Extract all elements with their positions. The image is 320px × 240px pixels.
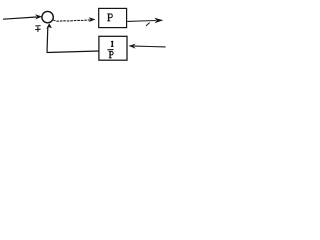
wire 1/P output to riser (bottom return line) (47, 51, 99, 53)
arrowhead into P block (89, 17, 96, 22)
label P (vector glyph) (107, 14, 112, 21)
label fraction denominator P (vector glyph) (109, 52, 113, 58)
background (0, 0, 167, 68)
label fraction numerator 1 (vector glyph) (111, 41, 114, 47)
wire P block output (127, 20, 156, 23)
wire riser up to summing junction (46, 28, 49, 53)
wire summing junction to P block (bumpy scan line) (53, 20, 90, 21)
block 1/P rectangle (99, 36, 127, 60)
minus-plus sign at summing junction (35, 26, 40, 32)
summing junction circle (42, 11, 53, 22)
arrowhead up into summing junction (46, 23, 52, 29)
block P rectangle (99, 8, 127, 27)
arrowhead into 1/P block (pointing left) (129, 44, 136, 49)
label fraction bar (107, 49, 113, 51)
arrowhead input into summing junction (35, 14, 42, 19)
wire input line into summing junction (3, 17, 37, 19)
wire feedback from right edge into 1/P block (134, 45, 165, 48)
arrowhead output (154, 18, 163, 23)
stray ink speck below output arrow (146, 23, 150, 26)
